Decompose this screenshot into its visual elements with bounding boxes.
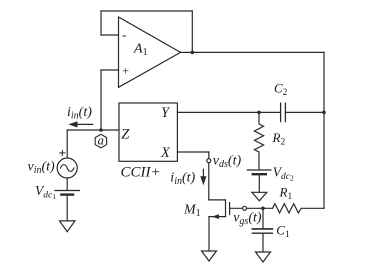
wire C2 to right rail <box>285 111 324 113</box>
wire plus input stub <box>101 69 119 71</box>
svg-text:X: X <box>160 145 171 161</box>
ground below M1 <box>202 251 217 261</box>
node junction dot at node a <box>99 128 103 132</box>
ground below V_dc1 <box>60 221 76 232</box>
current arrow i_in top <box>72 123 93 125</box>
wire main input horizontal <box>67 129 119 131</box>
source v_in(t) sinusoidal source circle <box>57 158 77 178</box>
wire X down to M1 drain <box>208 152 210 200</box>
CCII+ block <box>119 103 177 161</box>
wire Y terminal to C2 <box>177 111 280 113</box>
svg-text:-: - <box>122 27 126 42</box>
svg-text:vin(t): vin(t) <box>28 160 56 177</box>
wire from input down to source v_in <box>66 130 68 158</box>
svg-text:Z: Z <box>121 126 130 142</box>
resistor R2 <box>254 112 263 170</box>
wire battery to ground <box>66 196 68 221</box>
svg-text:Vdc1: Vdc1 <box>35 183 56 201</box>
wire feedback: top horizontal <box>101 10 192 12</box>
wire feedback: right vertical to output <box>191 11 193 52</box>
M1 source arrowhead <box>212 214 219 219</box>
ground below C1 <box>256 252 271 262</box>
plus polarity mark of v_in <box>60 150 65 155</box>
wire plus input vertical down to node a <box>100 70 102 130</box>
svg-text:Vdc2: Vdc2 <box>273 165 294 183</box>
current arrow i_in at drain <box>202 169 204 181</box>
node a hexagon badge <box>95 134 106 148</box>
wire X terminal <box>177 151 208 153</box>
svg-text:vds(t): vds(t) <box>213 154 242 171</box>
wire source to battery <box>66 178 68 191</box>
svg-text:Y: Y <box>161 105 171 121</box>
svg-text:iin(t): iin(t) <box>170 170 195 187</box>
svg-text:vgs(t): vgs(t) <box>233 210 262 227</box>
wire gate to R1/C1 junction <box>247 207 273 209</box>
wire battery V_dc2 to ground <box>258 175 260 192</box>
node junction dot R2 top <box>257 111 261 115</box>
svg-text:iin(t): iin(t) <box>67 105 92 122</box>
wire right rail vertical <box>323 52 325 208</box>
svg-text:a: a <box>98 134 104 148</box>
node junction dot R1/C1 <box>261 207 265 211</box>
svg-text:R2: R2 <box>272 130 286 148</box>
transistor M1 <box>209 199 226 201</box>
svg-text:R1: R1 <box>279 184 293 202</box>
node junction dot at output/feedback <box>191 51 195 55</box>
capacitor C2 <box>280 103 282 121</box>
battery V_dc2 <box>247 169 271 171</box>
ground below V_dc2 <box>252 192 267 201</box>
resistor R1 <box>273 204 325 213</box>
node v_gs open circle <box>243 206 247 210</box>
svg-text:M1: M1 <box>183 202 201 219</box>
op-amp A1 triangle <box>119 17 181 87</box>
wire feedback: minus input stub <box>101 34 119 36</box>
node v_ds open circle <box>207 159 211 163</box>
battery V_dc1 <box>55 190 79 192</box>
wire op-amp output to right rail <box>181 51 325 53</box>
capacitor C1 <box>262 208 264 229</box>
svg-text:CCII+: CCII+ <box>121 165 161 181</box>
svg-text:C2: C2 <box>274 80 288 98</box>
svg-text:+: + <box>122 64 130 78</box>
node junction dot right rail <box>322 111 326 115</box>
wire feedback: left vertical <box>100 11 102 35</box>
svg-text:A1: A1 <box>133 41 148 58</box>
svg-text:C1: C1 <box>276 222 290 240</box>
